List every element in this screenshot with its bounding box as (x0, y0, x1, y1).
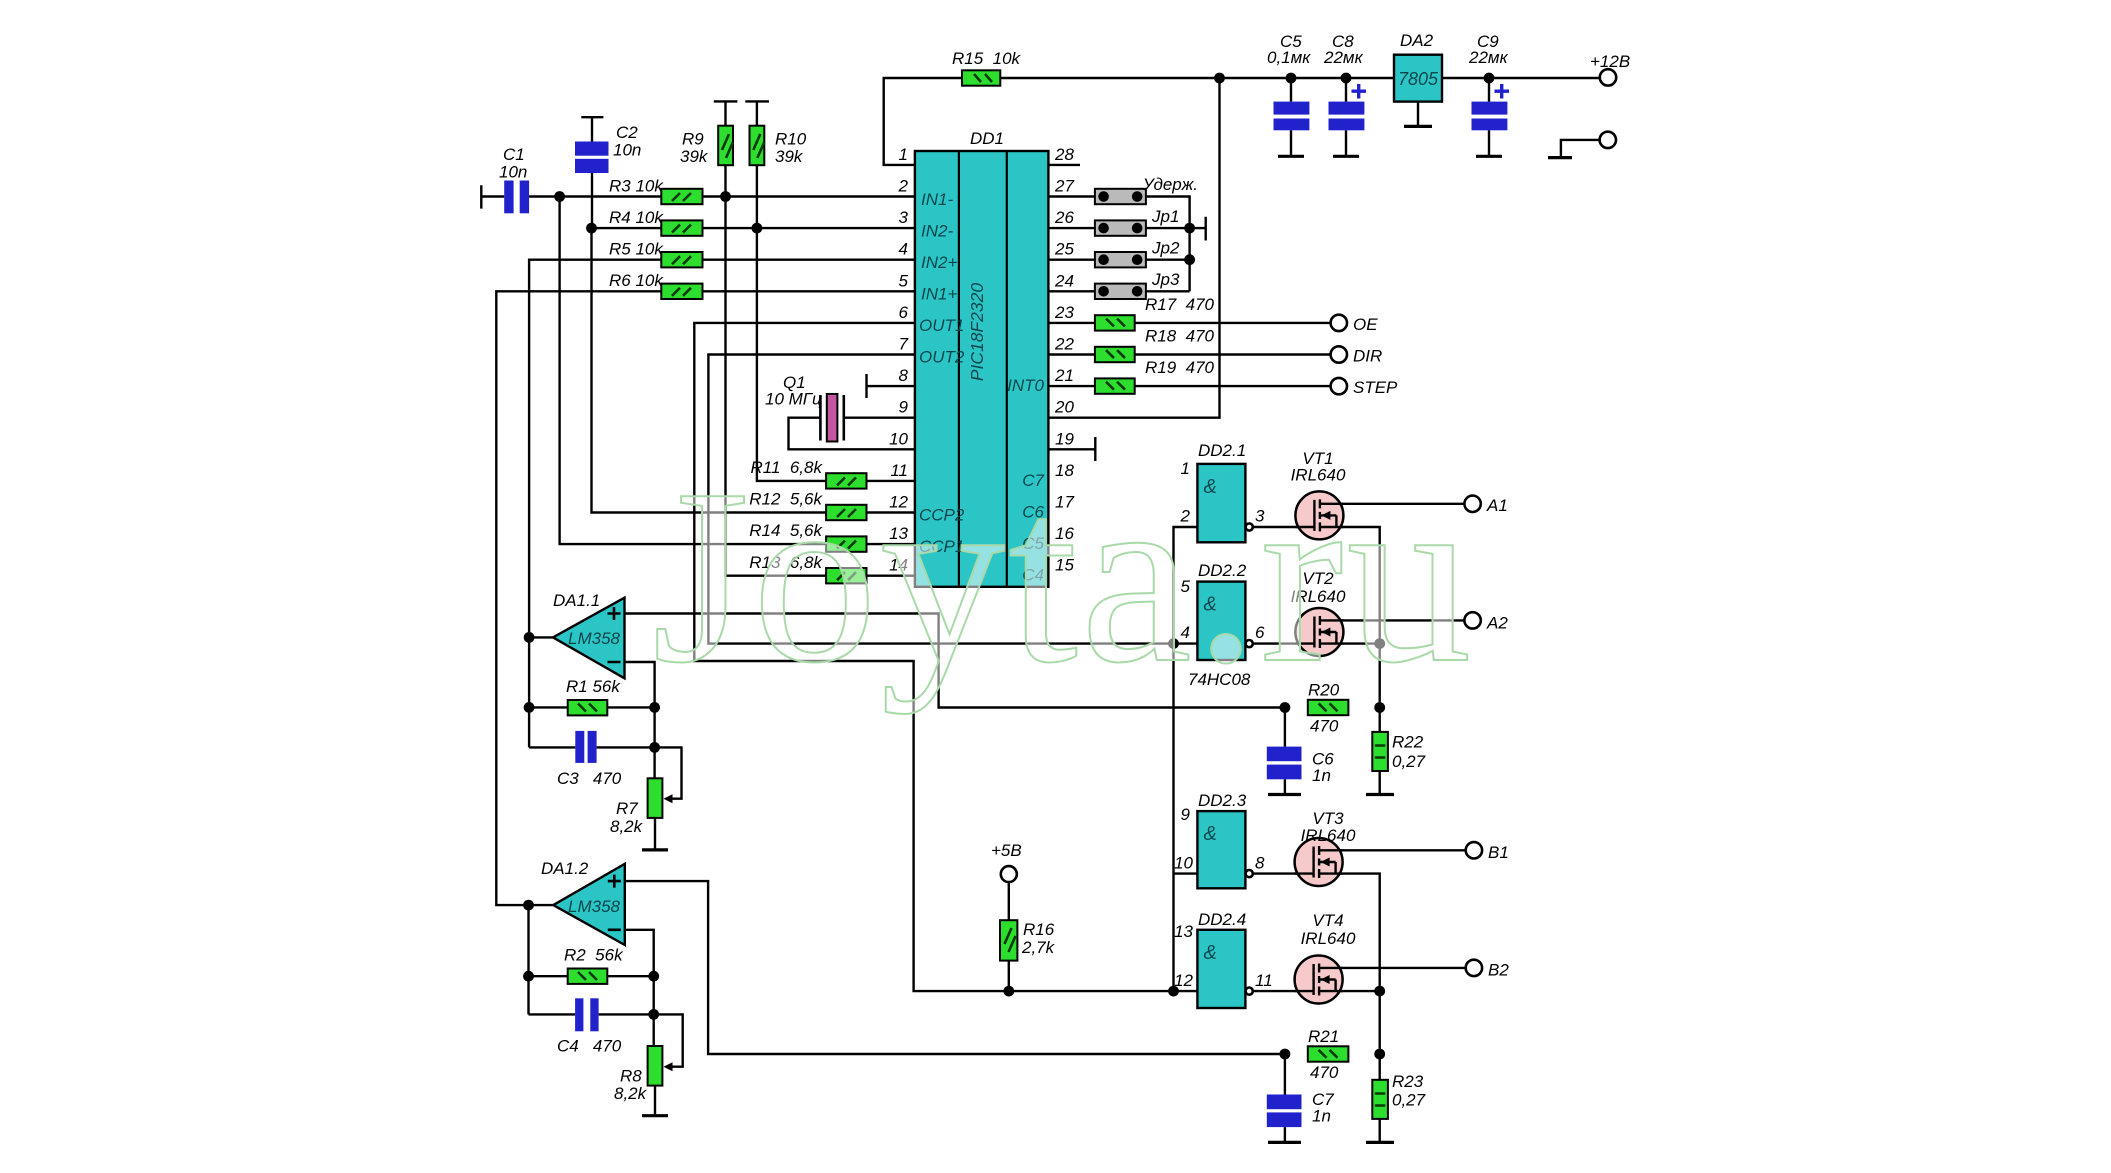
svg-text:Jp2: Jp2 (1151, 239, 1180, 258)
AND gate DD2.4 (1197, 930, 1245, 1008)
capacitor C8 polarized (1345, 78, 1347, 155)
svg-text:R4 10k: R4 10k (609, 208, 664, 227)
node junction C1/R3/CCP1 column (554, 191, 565, 202)
resistor R11 6,8k (826, 473, 866, 488)
svg-text:+12В: +12В (1590, 52, 1630, 71)
svg-text:R16: R16 (1023, 920, 1055, 939)
node junctions on +5 row rail (1003, 986, 1014, 997)
wire C2 node down to CCP2 row (R12 feed) (592, 228, 916, 512)
svg-text:LM358: LM358 (568, 897, 621, 916)
svg-text:R15 10k: R15 10k (952, 49, 1022, 68)
svg-text:Jp3: Jp3 (1151, 270, 1180, 289)
transistor VT2 IRL640 (1291, 569, 1346, 656)
svg-text:21: 21 (1054, 366, 1074, 385)
DD1 left column pin function labels (919, 190, 965, 556)
svg-text:12: 12 (1174, 971, 1193, 990)
svg-text:R6 10k: R6 10k (609, 271, 664, 290)
DD1 right pin numbers 28-15 (1054, 145, 1074, 575)
svg-text:OUT2: OUT2 (919, 348, 965, 367)
resistor R6 10k (661, 284, 702, 299)
wire pin21 to STEP (1048, 385, 1330, 387)
svg-text:Удерж.: Удерж. (1142, 175, 1198, 194)
wire pin23 to OE (1048, 322, 1330, 324)
capacitor C1 with open terminal (481, 185, 504, 208)
capacitor C3 470 (529, 746, 655, 748)
wire VT3 gate/source row to R21 right column (1253, 874, 1380, 1054)
terminal OE (1331, 315, 1347, 331)
svg-text:0,1мк: 0,1мк (1267, 48, 1311, 67)
jumper Jp2 pin 25 (1095, 252, 1146, 267)
wire DA1.1 - input down feedback column (625, 662, 655, 778)
svg-text:PIC18F2320: PIC18F2320 (967, 283, 987, 382)
svg-text:26: 26 (1054, 208, 1074, 227)
wire jumper right leads and common vertical (1146, 197, 1206, 292)
svg-text:R1 56k: R1 56k (566, 677, 621, 696)
svg-text:13: 13 (1174, 922, 1193, 941)
wire IN2+ net: pin 4 left and down to DA1.1 (529, 260, 915, 748)
transistor VT3 IRL640 (1295, 809, 1356, 886)
svg-text:24: 24 (1054, 271, 1074, 290)
svg-text:OE: OE (1353, 315, 1378, 334)
terminal A2 (1464, 612, 1480, 628)
svg-text:DIR: DIR (1353, 347, 1382, 366)
resistor R15 (962, 70, 1000, 85)
svg-text:&: & (1204, 823, 1217, 845)
svg-text:C1: C1 (503, 145, 525, 164)
resistor R18 470 (1095, 347, 1135, 362)
pin 8 stub with open terminator (867, 374, 916, 398)
svg-text:STEP: STEP (1353, 378, 1398, 397)
resistor R16 2,7k (1008, 882, 1010, 991)
svg-text:1: 1 (899, 145, 908, 164)
node junction C2/R4/CCP2 column (586, 223, 597, 234)
svg-text:OUT1: OUT1 (919, 316, 964, 335)
svg-text:11: 11 (1255, 971, 1273, 990)
capacitor C2 with open top terminal (581, 117, 603, 228)
svg-text:C3 470: C3 470 (557, 769, 622, 788)
svg-text:470: 470 (1310, 717, 1339, 736)
trimmer R7 8,2k with wiper arrow (655, 747, 682, 798)
resistor R5 10k (661, 252, 702, 267)
resistor R14 5,6k (826, 536, 866, 551)
resistor R19 470 (1095, 378, 1135, 393)
svg-text:DD2.4: DD2.4 (1198, 910, 1246, 929)
svg-text:22мк: 22мк (1468, 48, 1509, 67)
wire VT4 drain to B2 (1319, 967, 1466, 969)
transistor VT4 IRL640 (1295, 911, 1356, 1004)
svg-text:DA1.1: DA1.1 (553, 591, 600, 610)
wire IN2- net: C2 to pin 3 through R4 (592, 227, 916, 229)
svg-text:DD1: DD1 (970, 129, 1004, 148)
svg-text:VT4: VT4 (1312, 911, 1343, 930)
ground under R7 (654, 818, 656, 850)
ground under R8 (654, 1086, 656, 1116)
capacitor C4 470 (529, 1013, 654, 1015)
pin 28 stub (1048, 164, 1080, 166)
wire +5V top rail from pin1 through R15 to DA2 and +12V (884, 78, 1600, 165)
microcontroller DD1 PIC18F2320 (915, 151, 1049, 587)
wire VT1 gate/source row to R20 right column (1253, 527, 1380, 708)
svg-text:R10: R10 (775, 130, 807, 149)
AND gate DD2.3 (1197, 811, 1245, 888)
wire +5V rail down to pin 20 (1048, 78, 1219, 418)
svg-text:DA1.2: DA1.2 (541, 859, 589, 878)
ground under R23 (1366, 1141, 1394, 1144)
wire DA1.1 + input to R20 row (625, 614, 1285, 708)
wire DD2.1 pin2 / gate enable vertical (1174, 527, 1198, 991)
wire OUT1 net: pin 6 down and across to +5 rail row (694, 323, 1197, 991)
svg-text:IRL640: IRL640 (1301, 826, 1356, 845)
wire pin 10 to crystal (789, 418, 916, 450)
ground under C8 (1333, 155, 1359, 158)
svg-text:R5 10k: R5 10k (609, 240, 664, 259)
resistor R23 0,27 (1378, 1054, 1380, 1141)
AND gate DD2.1 (1197, 464, 1245, 542)
svg-text:Jp1: Jp1 (1151, 207, 1179, 226)
capacitor C6 1n (1284, 708, 1286, 794)
terminal 12V return with ground (1600, 132, 1616, 148)
crystal Q1 10MHz (820, 395, 843, 441)
wire DA1.2 - input down feedback column (625, 930, 654, 1046)
DD1 right column pin function labels (1007, 376, 1044, 585)
svg-text:0,27: 0,27 (1392, 752, 1426, 771)
wire jumper left leads pins 27-24 (1048, 197, 1095, 292)
svg-text:R3 10k: R3 10k (609, 177, 664, 196)
resistor R2 56k with feedback wire (529, 975, 654, 977)
svg-text:25: 25 (1054, 240, 1074, 259)
terminal +12B (1600, 69, 1616, 85)
svg-text:R7: R7 (616, 799, 638, 818)
terminal B1 (1466, 842, 1482, 858)
svg-text:B2: B2 (1488, 961, 1509, 980)
svg-text:DA2: DA2 (1400, 31, 1434, 50)
DD1 left pin numbers 1-14 (889, 145, 908, 575)
trimmer R8 8,2k with wiper arrow (654, 1014, 683, 1066)
capacitor C5 (1290, 78, 1292, 155)
svg-text:R21: R21 (1308, 1027, 1339, 1046)
jumper Jp3 pin 24 (1095, 284, 1146, 299)
svg-text:2: 2 (898, 177, 909, 196)
ground under DA2 (1417, 102, 1419, 126)
wire R10 bottom down to IN2- node then pin 11 row (757, 165, 915, 481)
wire DA1.2 + input to R21 row (625, 881, 1285, 1054)
svg-text:3: 3 (899, 208, 909, 227)
svg-text:R8: R8 (620, 1067, 642, 1086)
svg-text:INT0: INT0 (1007, 376, 1044, 395)
resistor R3 10k (661, 189, 702, 204)
svg-text:1n: 1n (1312, 1107, 1331, 1126)
svg-text:23: 23 (1054, 303, 1074, 322)
wire R9 bottom down to IN1- node and CCP1 junction column (726, 165, 916, 576)
svg-text:28: 28 (1054, 145, 1074, 164)
svg-text:A1: A1 (1486, 496, 1508, 515)
svg-text:IN1+: IN1+ (921, 285, 957, 304)
wire OUT2 net: pin 7 down to DD2.2 pin 4 row (708, 355, 1197, 644)
svg-text:7: 7 (899, 335, 909, 354)
svg-text:R2 56k: R2 56k (564, 946, 624, 965)
svg-text:B1: B1 (1488, 843, 1509, 862)
svg-text:R17 470: R17 470 (1145, 295, 1215, 314)
jumper Jp1 pin 26 (1095, 220, 1146, 235)
svg-text:IN2+: IN2+ (921, 253, 957, 272)
wire VT4 gate/source row (1253, 990, 1380, 992)
resistor R22 0,27 (1378, 708, 1380, 794)
ground under C7 (1268, 1141, 1301, 1144)
svg-text:DD2.3: DD2.3 (1198, 791, 1247, 810)
wire C1 node down to CCP1 row (R14 feed) (560, 197, 915, 545)
svg-text:R9: R9 (682, 130, 704, 149)
terminal +5B (1001, 866, 1017, 882)
svg-text:20: 20 (1054, 398, 1074, 417)
svg-text:IN1-: IN1- (921, 190, 953, 209)
svg-text:IRL640: IRL640 (1301, 929, 1356, 948)
svg-text:5: 5 (899, 271, 909, 290)
svg-text:470: 470 (1310, 1063, 1339, 1082)
svg-text:0,27: 0,27 (1392, 1091, 1426, 1110)
svg-text:9: 9 (899, 398, 909, 417)
svg-text:4: 4 (899, 240, 908, 259)
ground under C9 (1476, 155, 1502, 158)
terminal B2 (1466, 960, 1482, 976)
svg-text:A2: A2 (1486, 614, 1508, 633)
svg-text:LM358: LM358 (568, 629, 621, 648)
op-amp DA1.1 LM358 (529, 636, 553, 638)
jumper Удерж. pin 27 (1095, 189, 1146, 204)
pin 19 stub with open terminator (1048, 437, 1095, 461)
svg-text:22: 22 (1054, 335, 1074, 354)
wire IN1- net: C1 to pin 2 through R3 (529, 195, 915, 197)
wire pin 9 to crystal (844, 417, 915, 419)
terminal DIR (1331, 346, 1347, 362)
resistor R17 470 (1095, 315, 1135, 330)
terminal STEP (1331, 378, 1347, 394)
resistor R10 39k with open top terminal (745, 101, 769, 125)
svg-text:R22: R22 (1392, 733, 1424, 752)
capacitor C7 1n (1284, 1054, 1286, 1141)
svg-text:R19 470: R19 470 (1145, 358, 1215, 377)
voltage regulator DA2 7805 (1394, 55, 1442, 102)
resistor R12 5,6k (826, 505, 866, 520)
wire VT3 drain to B1 (1319, 849, 1466, 851)
svg-text:39k: 39k (680, 147, 709, 166)
wire VT2 gate/source row (1253, 642, 1380, 644)
svg-text:R18 470: R18 470 (1145, 327, 1215, 346)
ground under C6 (1268, 793, 1301, 796)
svg-text:22мк: 22мк (1323, 48, 1364, 67)
svg-text:C4 470: C4 470 (557, 1037, 622, 1056)
svg-text:8,2k: 8,2k (610, 817, 644, 836)
svg-text:1n: 1n (1312, 766, 1331, 785)
resistor R4 10k (661, 220, 702, 235)
wire DD2.3 pin10 stub (1174, 872, 1198, 874)
wire pin22 to DIR (1048, 353, 1330, 355)
resistor R9 39k with open top terminal (714, 101, 738, 125)
svg-text:&: & (1204, 942, 1217, 964)
node junction dots on +5V rail (1214, 73, 1225, 84)
svg-text:R23: R23 (1392, 1072, 1424, 1091)
svg-text:9: 9 (1181, 805, 1191, 824)
svg-text:6: 6 (899, 303, 909, 322)
resistor R21 470 (1280, 1049, 1291, 1060)
wire IN1+ net: pin 5 left and down to DA1.2 (496, 291, 915, 905)
svg-text:IN2-: IN2- (921, 222, 953, 241)
svg-text:10n: 10n (613, 141, 641, 160)
svg-text:10n: 10n (499, 163, 527, 182)
svg-text:8,2k: 8,2k (614, 1084, 648, 1103)
svg-text:10 МГц: 10 МГц (765, 390, 822, 409)
wire VT1 drain to A1 (1319, 503, 1464, 505)
ground under R22 (1366, 793, 1394, 796)
svg-text:+5В: +5В (991, 841, 1022, 860)
svg-text:8: 8 (899, 366, 909, 385)
svg-text:7805: 7805 (1398, 69, 1439, 89)
svg-text:C2: C2 (616, 123, 638, 142)
transistor VT1 IRL640 (1291, 449, 1346, 539)
svg-text:10: 10 (1174, 854, 1193, 873)
resistor R13 6,8k (826, 568, 866, 583)
op-amp DA1.2 LM358 (523, 900, 534, 911)
ground under C5 (1278, 155, 1304, 158)
AND gate DD2.2 (1197, 582, 1245, 660)
wire VT2 drain to A2 (1319, 619, 1464, 621)
terminal A1 (1464, 496, 1480, 512)
svg-text:Joyta.ru: Joyta.ru (652, 438, 1474, 715)
svg-text:2,7k: 2,7k (1021, 938, 1056, 957)
wire DA1.2 output column down to R2/C4 (527, 905, 529, 1014)
node junction OUT2 row / enable vertical (1168, 638, 1179, 649)
resistor R1 56k with feedback wire (529, 706, 655, 708)
svg-text:27: 27 (1054, 177, 1074, 196)
capacitor C9 polarized (1488, 78, 1490, 155)
svg-text:39k: 39k (775, 147, 804, 166)
resistor R20 470 (1280, 702, 1291, 713)
svg-text:8: 8 (1255, 854, 1265, 873)
